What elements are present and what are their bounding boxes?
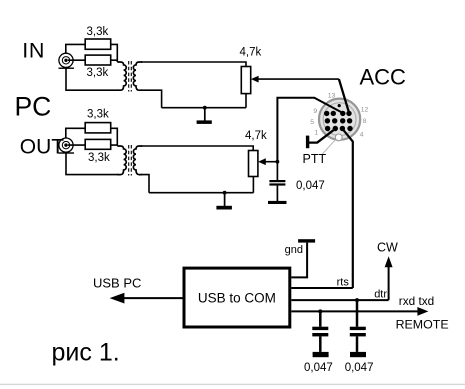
svg-text:3,3k: 3,3k: [87, 26, 109, 38]
svg-text:13: 13: [328, 92, 336, 99]
resistor R4 3,3k: [85, 139, 111, 149]
label fig 1: [52, 339, 120, 367]
wire J1 sleeve down and to T1 bottom: [66, 68, 118, 91]
capacitor C3 0,047: [269, 162, 285, 201]
junction dot RP2 wiper node: [276, 160, 280, 164]
svg-text:8: 8: [363, 118, 367, 125]
potentiometer RP1 wiper arrow: [251, 76, 339, 83]
label R1 3,3k: [87, 26, 109, 38]
wire T1 secondary top to RP1: [141, 62, 246, 67]
label rts: [337, 277, 350, 289]
wire J2 sleeve down and to T2 bottom: [66, 152, 118, 174]
label C3 0,047: [296, 180, 325, 192]
svg-text:USB to COM: USB to COM: [198, 290, 276, 305]
pin number 1: [314, 129, 318, 136]
svg-text:1: 1: [314, 129, 318, 136]
wire J2 tip to R4: [68, 144, 85, 146]
wire T2 secondary top to RP2: [141, 146, 253, 151]
wire wiper node up to ACC pin 12: [277, 98, 342, 162]
transformer T2 secondary coil: [133, 146, 142, 175]
svg-text:ACC: ACC: [360, 65, 407, 90]
svg-text:OUT: OUT: [20, 136, 65, 159]
label REMOTE: [396, 318, 449, 332]
svg-text:4: 4: [360, 131, 364, 138]
transformer T2 core: [129, 145, 132, 176]
label R3 3,3k: [87, 109, 109, 121]
svg-text:PTT: PTT: [303, 152, 327, 166]
ACC pin 13 small: [338, 104, 341, 107]
svg-text:dtr: dtr: [374, 289, 387, 301]
svg-text:3,3k: 3,3k: [87, 109, 109, 121]
svg-text:0,047: 0,047: [345, 362, 374, 374]
wire J1 top to R1: [66, 44, 85, 53]
label IN: [22, 39, 45, 63]
connector J2 OUT jack: [59, 138, 75, 153]
wire rxd txd line with arrow: [291, 307, 428, 316]
junction dot ground rail 1: [203, 106, 207, 110]
label USB to COM: [198, 290, 276, 305]
pin number 13: [328, 92, 336, 99]
wire J1 tip to R2: [68, 59, 85, 61]
svg-text:4,7k: 4,7k: [245, 130, 267, 142]
transformer T1 primary coil: [117, 62, 126, 90]
potentiometer RP1 4,7k body: [241, 67, 250, 94]
svg-text:рис 1.: рис 1.: [52, 339, 120, 367]
label gnd: [285, 244, 303, 256]
label RP1 4,7k: [240, 46, 262, 58]
svg-text:gnd: gnd: [285, 244, 303, 256]
svg-text:12: 12: [361, 107, 369, 114]
label PTT: [303, 152, 327, 166]
ground bar gnd net: [298, 239, 315, 242]
wire RP1 wiper to ACC pin 11: [339, 79, 349, 113]
transformer T2 primary coil: [117, 146, 126, 175]
pin number 8: [363, 118, 367, 125]
svg-text:REMOTE: REMOTE: [396, 318, 449, 332]
wire dtr line: [291, 299, 388, 301]
svg-text:IN: IN: [22, 39, 45, 63]
leader line notch to PTT: [322, 140, 336, 155]
ground GND3: [268, 201, 287, 204]
transformer T1 core: [129, 61, 132, 92]
ground GND2: [216, 193, 232, 210]
arrow CW: [385, 256, 393, 300]
resistor R1 3,3k: [85, 39, 111, 49]
wire J2 top to R3: [66, 128, 85, 138]
junction dot ground rail 2: [223, 191, 227, 195]
capacitor C2 0,047: [350, 300, 366, 352]
connector J1 IN jack: [59, 53, 75, 68]
wire R1 R2 right junction to T1 top: [111, 44, 118, 62]
svg-text:PC: PC: [15, 92, 52, 122]
contact PTT bar: [306, 136, 309, 149]
svg-text:4,7k: 4,7k: [240, 46, 262, 58]
transformer T1 secondary coil: [133, 62, 142, 90]
resistor R2 3,3k: [85, 55, 111, 65]
wire RP2 bottom to ground rail 2: [141, 175, 253, 193]
label PC: [15, 92, 52, 122]
svg-text:CW: CW: [377, 240, 398, 254]
wire rts to box: [291, 287, 353, 289]
svg-text:rxd txd: rxd txd: [399, 294, 434, 308]
ACC pins row 1: [324, 111, 352, 116]
svg-text:rts: rts: [337, 277, 350, 289]
scan artifact bottom line: [0, 383, 465, 385]
wire ACC pin to rts: [342, 129, 353, 288]
label rxd txd: [399, 294, 434, 308]
ground bar C1: [313, 352, 329, 357]
box U1 USB to COM: [184, 268, 290, 327]
ACC pins row 2: [325, 118, 353, 123]
arrow USB PC: [110, 293, 183, 304]
resistor R3 3,3k: [85, 123, 111, 133]
wire gnd to box: [291, 243, 307, 278]
ACC pins row 3: [325, 126, 353, 131]
svg-text:5: 5: [310, 119, 314, 126]
label RP2 4,7k: [245, 130, 267, 142]
junction dot C1 on rxd line: [318, 309, 322, 313]
junction dot C2 on dtr: [355, 298, 359, 302]
label C2 0,047: [345, 362, 374, 374]
ground bar C2: [350, 352, 366, 357]
wire RP1 bottom to ground rail: [141, 90, 246, 108]
svg-text:0,047: 0,047: [296, 180, 325, 192]
pin number 9: [313, 108, 317, 115]
wire PTT to ACC pin: [309, 129, 335, 143]
capacitor C1 0,047: [312, 311, 328, 352]
label R2 3,3k: [87, 67, 109, 79]
svg-text:9: 9: [313, 108, 317, 115]
potentiometer RP2 wiper arrow: [258, 158, 277, 165]
wire R3 R4 right junction to T2 top: [111, 128, 118, 146]
label CW: [377, 240, 398, 254]
label R4 3,3k: [88, 152, 110, 164]
label dtr: [374, 289, 387, 301]
svg-text:USB PC: USB PC: [93, 276, 141, 291]
pin number 4: [360, 131, 364, 138]
svg-text:0,047: 0,047: [304, 362, 333, 374]
label OUT: [20, 136, 65, 159]
potentiometer RP2 4,7k body: [249, 151, 258, 177]
pin number 5: [310, 119, 314, 126]
label ACC: [360, 65, 407, 90]
label C1 0,047: [304, 362, 333, 374]
connector XS1 ACC DIN face: [319, 99, 360, 141]
svg-text:3,3k: 3,3k: [87, 67, 109, 79]
pin number 12: [361, 107, 369, 114]
ground GND1: [197, 108, 212, 124]
label USB PC: [93, 276, 141, 291]
svg-text:3,3k: 3,3k: [88, 152, 110, 164]
